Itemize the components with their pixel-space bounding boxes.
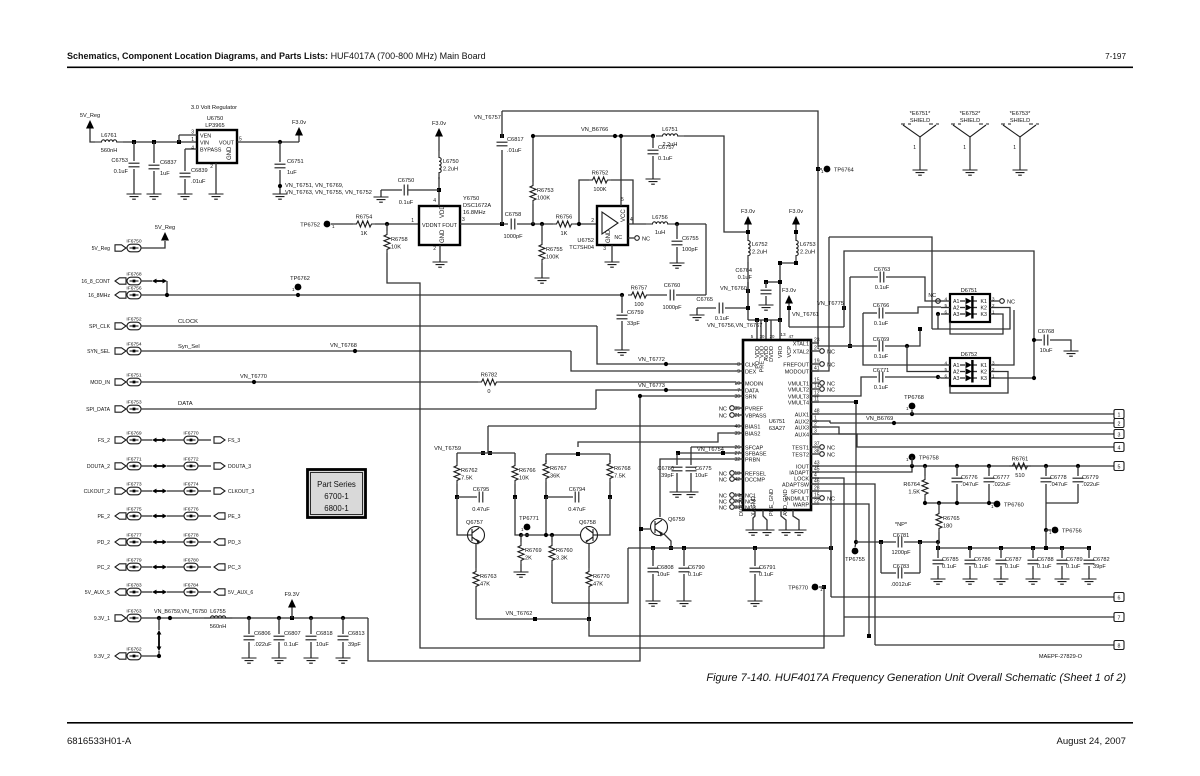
wire xyxy=(973,371,977,373)
pin K1 xyxy=(990,300,999,302)
wire xyxy=(589,617,844,636)
wire VMULT3 to C6771 xyxy=(811,377,877,396)
capacitor C6751 xyxy=(275,164,286,168)
pin VMULT2 xyxy=(811,388,819,390)
svg-text:CLK: CLK xyxy=(745,363,756,369)
wire xyxy=(310,642,312,658)
wire xyxy=(457,452,515,454)
wire xyxy=(652,136,654,148)
wire xyxy=(126,439,127,441)
wire xyxy=(141,617,368,619)
svg-text:VN_T6770: VN_T6770 xyxy=(240,374,267,380)
ground C6786 xyxy=(963,579,978,584)
wire IADAPT xyxy=(811,466,912,472)
capacitor C6817 xyxy=(497,142,508,146)
test point TP6762 xyxy=(295,284,302,291)
wire xyxy=(141,490,152,492)
wire xyxy=(532,136,534,182)
svg-text:20: 20 xyxy=(770,334,775,339)
wire xyxy=(1032,566,1034,579)
pin A2 xyxy=(941,307,950,309)
svg-text:TP6768: TP6768 xyxy=(904,395,924,401)
resistor R6753 xyxy=(530,182,536,204)
wire xyxy=(960,371,965,373)
svg-text:R6753: R6753 xyxy=(537,188,554,194)
capacitor C6787 plates xyxy=(996,560,1007,564)
svg-text:R6769: R6769 xyxy=(525,548,542,554)
svg-text:0.1uF: 0.1uF xyxy=(715,316,730,322)
shield E6751 xyxy=(901,124,939,170)
svg-text:0.1uF: 0.1uF xyxy=(974,564,989,570)
ground xyxy=(646,179,661,184)
wire xyxy=(609,482,611,497)
wire xyxy=(973,313,977,315)
ground xyxy=(273,194,288,199)
ground C6791 xyxy=(748,601,763,606)
ground C6782 xyxy=(1082,579,1097,584)
wire xyxy=(381,189,402,191)
wire xyxy=(167,541,184,543)
tag PD_2 xyxy=(115,539,126,545)
wire xyxy=(628,547,831,549)
svg-text:2.2uH: 2.2uH xyxy=(800,250,815,256)
wire xyxy=(141,294,622,296)
wire pin DVDD xyxy=(770,320,772,340)
wire xyxy=(551,564,553,603)
ground xyxy=(127,194,142,199)
svg-text:9: 9 xyxy=(737,369,740,375)
svg-text:L6761: L6761 xyxy=(101,133,117,139)
pin REFSEL xyxy=(735,472,743,474)
svg-text:1: 1 xyxy=(521,527,524,532)
wire xyxy=(179,134,197,136)
wire D6751 K2 loop xyxy=(932,308,1010,330)
wire xyxy=(517,223,553,225)
pin AUX4 xyxy=(811,433,819,435)
capacitor C6753 xyxy=(129,163,140,167)
ground C6808 xyxy=(646,601,661,606)
wire xyxy=(475,590,477,619)
wire xyxy=(541,224,543,241)
svg-text:F3.0v: F3.0v xyxy=(782,288,796,294)
wire A1 D6752 xyxy=(863,313,941,365)
svg-text:A3: A3 xyxy=(953,376,960,382)
svg-text:510: 510 xyxy=(1015,473,1024,479)
ground xyxy=(433,262,448,267)
wire xyxy=(408,189,439,191)
svg-text:1: 1 xyxy=(1118,412,1121,418)
svg-text:VN_T6773: VN_T6773 xyxy=(638,383,665,389)
ground IC 1 xyxy=(746,530,761,535)
svg-text:MOD_IN: MOD_IN xyxy=(90,380,110,386)
wire xyxy=(811,421,830,423)
svg-text:C6755: C6755 xyxy=(682,236,699,242)
svg-text:IF6770: IF6770 xyxy=(183,431,199,437)
wire xyxy=(973,300,977,302)
svg-text:PC_2: PC_2 xyxy=(97,565,110,571)
inductor L6751 xyxy=(656,134,684,136)
wire xyxy=(141,591,152,593)
tag PE_2 xyxy=(115,513,126,519)
pin PVREF xyxy=(735,407,743,409)
pin DEX xyxy=(735,370,743,372)
wire xyxy=(652,156,654,179)
svg-text:R6757: R6757 xyxy=(631,286,648,292)
interconnect IF6783 xyxy=(127,588,141,596)
svg-text:Part Series: Part Series xyxy=(317,480,356,489)
svg-text:PRBN: PRBN xyxy=(745,458,760,464)
svg-text:CLKOUT_2: CLKOUT_2 xyxy=(84,489,110,495)
svg-text:5V_Reg: 5V_Reg xyxy=(80,113,100,119)
ground IC 4 xyxy=(792,530,807,535)
test point TP6755 xyxy=(852,548,859,555)
capacitor C6759 xyxy=(617,315,628,319)
svg-text:7.5K: 7.5K xyxy=(614,474,626,480)
ground xyxy=(684,492,699,497)
wire xyxy=(178,135,180,142)
svg-text:1: 1 xyxy=(1013,145,1016,151)
interconnect IF6762 xyxy=(127,652,141,660)
wire xyxy=(375,223,419,225)
svg-text:K3: K3 xyxy=(981,312,988,318)
svg-text:LP3965: LP3965 xyxy=(205,123,224,129)
svg-text:1uH: 1uH xyxy=(655,230,665,236)
svg-text:PRE_GND: PRE_GND xyxy=(769,489,775,516)
interconnect IF6756 xyxy=(127,291,141,299)
interconnect IF6773 xyxy=(127,487,141,495)
svg-text:10uF: 10uF xyxy=(1040,348,1053,354)
wire conn6 riser xyxy=(830,548,832,597)
capacitor C6818 xyxy=(306,636,317,640)
svg-text:100K: 100K xyxy=(537,196,550,202)
svg-text:47: 47 xyxy=(789,334,794,339)
wire xyxy=(457,496,477,498)
pin VMULT4 xyxy=(811,401,819,403)
svg-text:0.1uF: 0.1uF xyxy=(284,642,299,648)
svg-text:L6756: L6756 xyxy=(652,215,668,221)
svg-text:DATA: DATA xyxy=(178,401,193,407)
pin NC3 xyxy=(735,506,743,508)
power F3.0v at VCP xyxy=(785,295,793,304)
pin NC2 xyxy=(735,500,743,502)
wire xyxy=(1061,566,1063,579)
resistor R6782 xyxy=(478,379,500,385)
ground shield E6751 xyxy=(913,170,928,175)
wire xyxy=(456,453,458,462)
test point TP6771 xyxy=(524,524,531,531)
wire SFCAP xyxy=(691,446,735,448)
tag SPI_DATA xyxy=(115,406,126,412)
wire xyxy=(380,190,382,197)
wire xyxy=(1088,566,1090,579)
resistor R6756 xyxy=(553,221,575,227)
wire xyxy=(937,548,939,558)
svg-text:TP6771: TP6771 xyxy=(519,516,539,522)
wire xyxy=(885,376,938,378)
svg-text:IF6778: IF6778 xyxy=(183,533,199,539)
resistor R6757 on 16_8MHz xyxy=(620,293,624,297)
svg-text:0.1uF: 0.1uF xyxy=(658,156,673,162)
capacitor C6760 xyxy=(670,290,674,301)
wire xyxy=(438,136,440,151)
svg-text:IF6752: IF6752 xyxy=(126,317,142,323)
svg-text:0.1uF: 0.1uF xyxy=(1005,564,1020,570)
pin AUX2 xyxy=(811,420,819,422)
svg-text:AUX4: AUX4 xyxy=(795,433,809,439)
wire xyxy=(126,408,127,410)
pin SFOUT xyxy=(811,490,819,492)
wire xyxy=(885,307,941,313)
pin LOCK xyxy=(811,477,819,479)
svg-text:August 24, 2007: August 24, 2007 xyxy=(1056,736,1126,747)
wire xyxy=(520,535,522,542)
pin WARP xyxy=(811,503,819,505)
wire xyxy=(215,163,217,194)
bus link xyxy=(155,490,164,492)
capacitor C6778 plates xyxy=(1041,478,1052,482)
svg-text:C6777: C6777 xyxy=(993,475,1010,481)
bus link xyxy=(155,465,164,467)
wire R6758 down to long vertical xyxy=(387,253,824,648)
svg-text:VRO: VRO xyxy=(778,345,784,358)
wire right cell xyxy=(546,497,581,535)
wire xyxy=(969,566,971,579)
svg-text:NC: NC xyxy=(642,237,650,243)
capacitor C6791 plates xyxy=(750,568,761,572)
svg-text:C6771: C6771 xyxy=(873,368,890,374)
wire 9.3V to rail xyxy=(368,396,640,661)
svg-text:0.1uF: 0.1uF xyxy=(874,385,889,391)
svg-text:35: 35 xyxy=(734,406,740,412)
svg-text:VN_B6769: VN_B6769 xyxy=(866,416,893,422)
svg-text:2: 2 xyxy=(210,164,213,170)
svg-text:C6759: C6759 xyxy=(627,310,644,316)
resistor R6767 xyxy=(543,460,549,482)
svg-text:*E6752*: *E6752* xyxy=(960,111,981,117)
wire xyxy=(126,465,127,467)
wire xyxy=(844,616,1114,618)
capacitor C6777 plates xyxy=(984,478,995,482)
inductor L6761 xyxy=(95,140,123,142)
resistor R6758 xyxy=(384,231,390,253)
bus link xyxy=(155,566,164,568)
wire xyxy=(697,307,716,309)
svg-text:VN_T6768: VN_T6768 xyxy=(330,343,357,349)
svg-text:TP6758: TP6758 xyxy=(919,456,939,462)
wire supply rail above IC xyxy=(747,262,749,320)
wire xyxy=(938,503,940,510)
svg-text:SPI_CLK: SPI_CLK xyxy=(89,324,111,330)
svg-text:NC: NC xyxy=(719,407,727,413)
svg-text:NC: NC xyxy=(719,478,727,484)
wire A3 stub xyxy=(937,314,939,329)
svg-text:NC: NC xyxy=(719,506,727,512)
capacitor C6795 xyxy=(455,495,459,499)
svg-text:VBPASS: VBPASS xyxy=(745,414,767,420)
wire xyxy=(1046,529,1051,531)
svg-text:Syn_Sel: Syn_Sel xyxy=(178,344,200,350)
wire xyxy=(956,484,958,503)
svg-text:R6754: R6754 xyxy=(356,215,373,221)
connector 8 xyxy=(1114,641,1124,650)
power F3.0v at L6753 xyxy=(792,216,800,225)
svg-text:TP6752: TP6752 xyxy=(300,223,320,229)
svg-text:1: 1 xyxy=(906,457,909,462)
pin BIAS2 xyxy=(735,432,743,434)
test point TP6756 xyxy=(1052,527,1059,534)
svg-text:NC: NC xyxy=(719,414,727,420)
svg-text:L6755: L6755 xyxy=(210,609,226,615)
wire xyxy=(831,596,1114,598)
wire xyxy=(167,515,184,517)
wire BIAS1 xyxy=(488,425,735,427)
svg-text:39: 39 xyxy=(734,431,740,437)
svg-text:NC: NC xyxy=(928,293,936,299)
svg-text:30: 30 xyxy=(760,334,765,339)
svg-text:2.2uH: 2.2uH xyxy=(752,250,767,256)
svg-text:VN_T6775: VN_T6775 xyxy=(817,301,844,307)
svg-text:PVREF: PVREF xyxy=(745,407,764,413)
wire xyxy=(153,142,155,163)
wire xyxy=(237,141,299,143)
svg-text:33pF: 33pF xyxy=(627,321,640,327)
svg-text:WARP: WARP xyxy=(793,503,810,509)
svg-text:VN_T6762: VN_T6762 xyxy=(506,611,533,617)
connector 5 xyxy=(1114,462,1124,471)
shield E6753 xyxy=(1001,124,1039,170)
capacitor C6769 plates xyxy=(879,341,883,352)
tag DOUTA_2 xyxy=(115,463,126,469)
svg-text:F3.0v: F3.0v xyxy=(789,209,803,215)
svg-text:BIAS2: BIAS2 xyxy=(745,432,760,438)
svg-text:L6753: L6753 xyxy=(800,242,816,248)
svg-text:C6783: C6783 xyxy=(893,564,910,570)
wire xyxy=(1050,340,1071,351)
wire xyxy=(811,413,1114,415)
power F9.3V xyxy=(288,599,296,608)
test point TP6764 xyxy=(824,166,831,173)
diode D6752 cathode bar xyxy=(971,360,973,383)
wire xyxy=(754,574,756,601)
svg-text:VN_T6760: VN_T6760 xyxy=(720,286,747,292)
svg-text:10K: 10K xyxy=(519,476,529,482)
svg-text:NC: NC xyxy=(614,235,622,241)
wire xyxy=(881,572,896,574)
svg-text:FS_2: FS_2 xyxy=(98,438,110,444)
svg-text:VMULT4: VMULT4 xyxy=(788,401,809,407)
pin A3 xyxy=(941,313,950,315)
svg-text:C6768: C6768 xyxy=(1038,329,1055,335)
svg-text:IF6777: IF6777 xyxy=(126,533,142,539)
wire xyxy=(1032,548,1034,558)
wire pin VDD2 xyxy=(779,320,781,340)
svg-text:TP6756: TP6756 xyxy=(1062,529,1082,535)
wire xyxy=(123,141,196,143)
svg-text:2.2uH: 2.2uH xyxy=(662,142,677,148)
svg-text:C6765: C6765 xyxy=(696,297,713,303)
wire xyxy=(141,350,571,352)
svg-text:K2: K2 xyxy=(981,370,988,376)
wire D6752 K3 to C6768 rail xyxy=(999,377,1034,379)
svg-text:AVD_GND: AVD_GND xyxy=(783,489,789,516)
wire MODOUT xyxy=(811,237,829,371)
svg-text:BYPASS: BYPASS xyxy=(200,148,222,154)
wire xyxy=(198,591,211,593)
ground xyxy=(670,263,685,268)
wire xyxy=(141,408,596,410)
svg-text:R6758: R6758 xyxy=(391,237,408,243)
wire pin PRE_VDD xyxy=(760,320,762,340)
wire xyxy=(520,564,522,572)
pin A3 xyxy=(941,377,950,379)
capacitor C6757 xyxy=(651,134,655,138)
wire xyxy=(198,541,211,543)
svg-text:MODOUT: MODOUT xyxy=(785,370,810,376)
resistor R6757 xyxy=(628,292,650,298)
svg-text:R6755: R6755 xyxy=(546,247,563,253)
svg-text:C6794: C6794 xyxy=(569,487,586,493)
wire xyxy=(856,541,896,543)
wire xyxy=(886,277,941,301)
svg-text:DSC1672A: DSC1672A xyxy=(463,203,491,209)
power 5V_Reg xyxy=(86,120,94,129)
wire xyxy=(545,454,547,462)
pin SFBASE xyxy=(735,452,743,454)
capacitor C6783 plates xyxy=(898,568,902,579)
pin SFCAP xyxy=(735,446,743,448)
shield E6752 xyxy=(951,124,989,170)
svg-text:FREFOUT: FREFOUT xyxy=(783,363,809,369)
svg-text:32: 32 xyxy=(734,457,740,463)
svg-text:TEST2: TEST2 xyxy=(792,453,809,459)
resistor R6765 xyxy=(936,510,942,532)
svg-text:1K: 1K xyxy=(361,231,368,237)
svg-text:.022uF: .022uF xyxy=(1082,482,1100,488)
wire xyxy=(438,177,440,206)
svg-text:ADAPTSW: ADAPTSW xyxy=(782,483,810,489)
wire xyxy=(875,644,1114,646)
svg-text:SHIELD: SHIELD xyxy=(960,118,980,124)
svg-text:TEST1: TEST1 xyxy=(792,446,809,452)
svg-text:IF6775: IF6775 xyxy=(126,507,142,513)
svg-text:VN_B6766: VN_B6766 xyxy=(581,127,608,133)
ground R6769 xyxy=(514,572,529,577)
resistor R6764 xyxy=(922,476,928,498)
svg-text:1000pF: 1000pF xyxy=(503,234,523,240)
svg-text:IF6769: IF6769 xyxy=(126,431,142,437)
capacitor C6757 xyxy=(648,150,659,154)
interconnect IF6753 xyxy=(127,405,141,413)
svg-text:39pF: 39pF xyxy=(1093,564,1106,570)
tag 9.3V_1 xyxy=(115,615,126,621)
power 5V_Reg left column xyxy=(161,232,169,241)
svg-text:C6787: C6787 xyxy=(1005,557,1022,563)
wire xyxy=(690,447,692,465)
capacitor C6771 plates xyxy=(879,372,883,383)
wire xyxy=(819,586,824,588)
wire xyxy=(133,169,135,194)
svg-text:IF6751: IF6751 xyxy=(126,373,142,379)
ground xyxy=(336,658,351,663)
svg-text:L6751: L6751 xyxy=(662,127,678,133)
svg-text:C6751: C6751 xyxy=(287,159,304,165)
wire pin AVDD xyxy=(765,320,767,340)
wire xyxy=(1088,548,1090,558)
pin MODOUT xyxy=(811,370,819,372)
svg-text:R6770: R6770 xyxy=(593,574,610,580)
ground IC 2 xyxy=(760,530,775,535)
capacitor C6795 plates xyxy=(479,492,483,503)
